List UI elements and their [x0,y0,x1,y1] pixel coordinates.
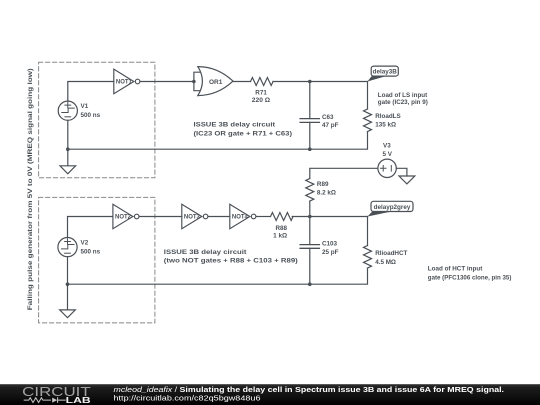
wire V2 top to NOT2 input [68,217,113,238]
ground under V1 [60,149,76,174]
svg-text:C63: C63 [322,114,334,121]
wire RloadHCT bottom to ground rail [68,268,368,284]
NOT gate NOT1 [114,69,140,94]
svg-text:Load of HCT input: Load of HCT input [428,265,483,272]
svg-text:C103: C103 [322,241,338,248]
svg-text:R88: R88 [276,225,288,232]
flag delay3B [368,66,399,81]
svg-text:R89: R89 [317,181,329,188]
svg-text:RlioadHCT: RlioadHCT [375,250,407,257]
wire OR1 output to R71 [233,81,251,83]
svg-text:Falling pulse generator from 5: Falling pulse generator from 5V to 0V (M… [27,68,34,310]
capacitor C63 [300,82,319,150]
wire NOT1 output to OR1 input node [141,81,194,83]
wire V3 left to R89 [310,168,378,178]
svg-text:NOT1: NOT1 [116,80,133,86]
svg-text:500 ns: 500 ns [81,112,101,119]
resistor R89 [306,179,314,202]
svg-text:4.5 MΩ: 4.5 MΩ [375,259,396,266]
svg-text:RloadLS: RloadLS [375,113,401,120]
node junction C63 bottom [308,147,312,151]
svg-text:47 pF: 47 pF [322,122,339,129]
voltage source V3 [378,159,396,177]
svg-text:R71: R71 [255,90,267,97]
svg-text:delay3B: delay3B [373,69,398,76]
svg-text:500 ns: 500 ns [81,248,101,255]
ground at V3 [399,176,415,184]
NOT gate NOT4 [230,204,256,228]
node junction C103 bottom [308,282,312,286]
svg-text:V1: V1 [81,103,89,110]
NOT gate NOT3 [182,204,208,228]
svg-text:gate (IC23, pin 9): gate (IC23, pin 9) [378,99,428,106]
wire R71 to delay3B node [273,81,368,83]
svg-text:gate (PFC1306 clone, pin 35): gate (PFC1306 clone, pin 35) [428,274,512,281]
wire delayp2grey node down to RloadHCT [367,217,369,246]
wire RloadLS bottom to ground rail [68,132,368,150]
voltage source V2 [58,238,77,257]
wire V1 bottom to rail [67,120,69,149]
resistor RloadHCT [364,246,372,269]
svg-text:135 kΩ: 135 kΩ [375,122,396,129]
voltage source V1 [58,101,77,120]
CircuitLab logo squiggle (resistor + diode) [24,397,66,403]
wire V1 top to NOT1 input [68,82,114,102]
wire NOT2 to NOT3 [140,216,182,218]
node junction V1 ground [66,147,70,151]
OR gate OR1 input bracket wires [194,72,201,91]
node junction V2 ground [66,282,70,286]
svg-text:V2: V2 [81,240,89,247]
svg-text:ISSUE 3B delay circuit: ISSUE 3B delay circuit [194,122,276,129]
wire V2 bottom to rail [67,257,69,285]
flag delayp2grey [368,201,414,216]
OR gate OR1 [198,67,233,96]
svg-text:NOT3: NOT3 [184,215,201,221]
svg-text:LAB: LAB [66,396,91,405]
node junction C63 top [308,80,312,84]
svg-text:220 Ω: 220 Ω [252,97,270,104]
svg-text:OR1: OR1 [209,79,223,86]
node junction at OR1 input [192,80,196,84]
resistor RloadLS [364,109,372,132]
svg-text:1 kΩ: 1 kΩ [273,232,287,239]
svg-text:5 V: 5 V [383,151,393,158]
svg-text:delayp2grey: delayp2grey [374,204,411,211]
svg-text:(two NOT gates + R88 + C103 +: (two NOT gates + R88 + C103 + R89) [164,258,298,265]
wire R88 to delayp2grey node [292,216,367,218]
wire V3 right to ground [396,168,407,176]
wire NOT3 to NOT4 [209,216,230,218]
resistor R71 [251,78,274,86]
footer bar [0,384,540,405]
svg-text:NOT2: NOT2 [115,215,132,221]
svg-text:http://circuitlab.com/c82q5bgw: http://circuitlab.com/c82q5bgw848u6 [114,394,261,403]
node junction R89/C103/R88 [308,215,312,219]
svg-text:(IC23 OR gate + R71 + C63): (IC23 OR gate + R71 + C63) [194,131,293,138]
wire NOT4 to R88 [257,216,271,218]
resistor R88 [271,213,294,221]
svg-text:NOT4: NOT4 [232,215,249,221]
wire delay3B node down to RloadLS [367,82,369,110]
svg-text:V3: V3 [383,143,391,150]
dashed enclosure box 1 (top pulse generator) [39,62,155,178]
svg-text:8.2 kΩ: 8.2 kΩ [317,189,336,196]
capacitor C103 [300,217,319,285]
wire R89 bottom to delayp2grey rail [309,201,311,216]
NOT gate NOT2 [113,204,139,228]
svg-text:25 pF: 25 pF [322,249,339,256]
dashed enclosure box 2 (bottom pulse generator) [39,197,155,323]
svg-text:ISSUE 3B delay circuit: ISSUE 3B delay circuit [164,249,248,256]
svg-text:Load of LS input: Load of LS input [378,92,428,99]
ground under V2 [60,284,76,318]
